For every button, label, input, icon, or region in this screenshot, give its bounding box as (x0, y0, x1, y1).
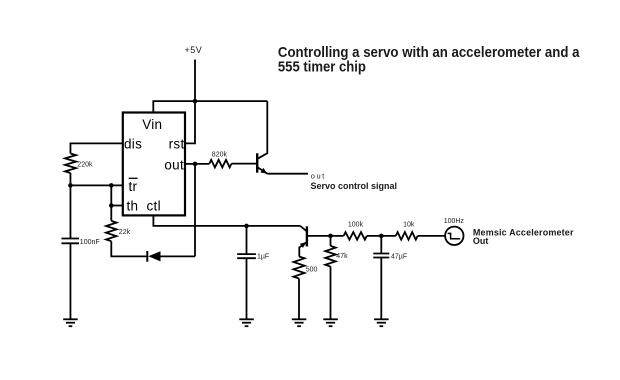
wire ctl drop (153, 215, 300, 226)
svg-text:100k: 100k (348, 222, 364, 229)
wire rst riser (186, 101, 196, 143)
svg-text:ctl: ctl (147, 199, 161, 214)
node tr/220k junction (68, 183, 73, 188)
svg-text:220k: 220k (77, 162, 93, 169)
wire 100nF bottom lead (69, 243, 71, 319)
wire 1uF bottom lead (246, 258, 248, 319)
ground (500) (292, 319, 307, 326)
resistor 22k (106, 221, 116, 241)
op-amp 555 timer U1 box (123, 113, 185, 216)
node th junction (109, 203, 114, 208)
ground (1uF) (239, 319, 254, 326)
svg-text:th: th (127, 199, 139, 214)
resistor 820k (209, 160, 231, 168)
svg-text:47k: 47k (336, 253, 348, 260)
ground (47uF) (374, 319, 389, 326)
wire top rail (153, 101, 267, 113)
svg-text:dis: dis (124, 136, 142, 151)
wire 820k to Q1 base (232, 163, 257, 165)
svg-text:out: out (164, 157, 184, 172)
wire 220k bottom to tr node (69, 173, 71, 185)
capacitor 47uF (373, 254, 389, 258)
svg-text:820k: 820k (212, 151, 228, 158)
wire 22k bottom to diode line (111, 241, 147, 256)
transistor Q1 (NPN servo driver) (257, 101, 267, 174)
svg-text:47µF: 47µF (391, 254, 407, 261)
svg-text:22k: 22k (119, 229, 131, 236)
wire tr line (70, 184, 122, 186)
svg-text:rst: rst (169, 136, 185, 151)
transistor Q2 (PNP follower) (299, 226, 307, 257)
svg-text:1µF: 1µF (257, 254, 269, 261)
svg-text:tr: tr (129, 179, 138, 194)
svg-text:555 timer chip: 555 timer chip (278, 59, 366, 75)
wire +5V stub (194, 60, 196, 102)
resistor 10k (396, 232, 418, 240)
wire 100k to 10k (367, 235, 396, 237)
wire 500 to ground (298, 279, 300, 320)
svg-text:+5V: +5V (185, 45, 203, 55)
resistor 47k (325, 246, 335, 267)
wire Q2 base line (307, 235, 344, 237)
wire 100nF top lead (69, 185, 71, 238)
resistor 100k (344, 232, 367, 240)
svg-text:100nF: 100nF (80, 239, 100, 246)
node 47k junction (328, 234, 333, 239)
wire 47uF to ground (380, 258, 382, 320)
node 1uF junction (244, 224, 249, 229)
wire out pin stub (186, 163, 210, 165)
wire 47k to ground (330, 267, 332, 320)
node tr branch junction (109, 183, 114, 188)
svg-text:Servo control signal: Servo control signal (311, 181, 398, 191)
wire dis stub (70, 143, 122, 153)
svg-text:out: out (311, 172, 326, 181)
source V1 accelerometer signal (445, 227, 463, 245)
capacitor 100nF (62, 239, 80, 244)
wire 1uF top lead (246, 226, 248, 254)
wire 47uF top lead (380, 236, 382, 254)
node 47uF junction (379, 234, 384, 239)
wire th stub (111, 205, 123, 207)
node rail junction (193, 99, 198, 104)
node out junction (193, 162, 198, 167)
ground (100nF) (63, 319, 77, 326)
title text (278, 43, 580, 74)
wire tr-to-22k vertical (110, 185, 112, 221)
svg-text:Vin: Vin (142, 117, 162, 132)
svg-text:Controlling a servo with an ac: Controlling a servo with an acceleromete… (278, 43, 580, 60)
wire Q1 emitter out line (268, 173, 309, 175)
ground (47k) (323, 319, 338, 326)
resistor 500 (294, 257, 305, 279)
diode D1 (147, 251, 195, 262)
wire 10k to source (418, 235, 446, 237)
wire out vertical (out pin to diode line) (194, 164, 196, 257)
svg-text:10k: 10k (403, 222, 415, 229)
svg-text:100Hz: 100Hz (444, 218, 465, 225)
resistor 220k (65, 154, 76, 174)
svg-text:Out: Out (473, 236, 489, 246)
svg-text:500: 500 (306, 267, 318, 274)
capacitor 1uF (237, 254, 256, 258)
wire 47k top lead (330, 236, 332, 246)
